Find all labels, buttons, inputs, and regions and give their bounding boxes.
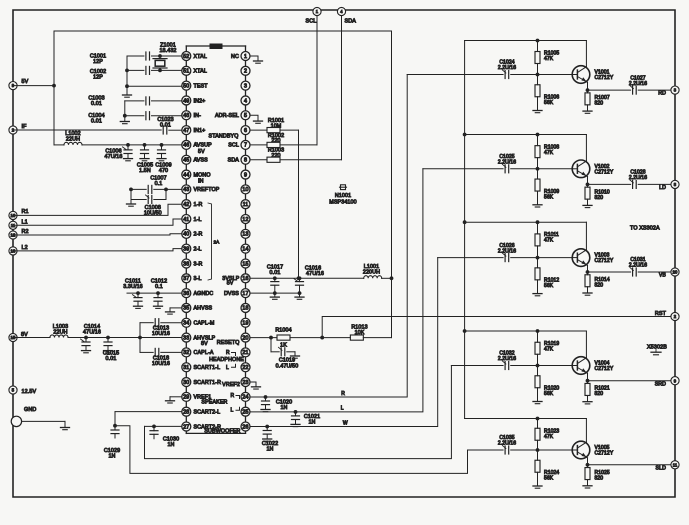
svg-text:12P: 12P xyxy=(93,59,103,65)
svg-text:8V: 8V xyxy=(201,341,208,347)
svg-text:2A: 2A xyxy=(214,240,221,245)
svg-text:10K: 10K xyxy=(355,330,365,336)
svg-text:3: 3 xyxy=(244,83,247,89)
svg-text:NC: NC xyxy=(231,54,239,60)
svg-text:38: 38 xyxy=(183,261,189,267)
svg-text:2.2U/16: 2.2U/16 xyxy=(498,65,516,71)
svg-text:820: 820 xyxy=(595,283,604,289)
svg-text:LD: LD xyxy=(659,185,666,191)
svg-text:820: 820 xyxy=(595,101,604,107)
svg-text:0.01: 0.01 xyxy=(106,356,117,362)
svg-text:1-R: 1-R xyxy=(194,202,203,208)
svg-text:2.2U/16: 2.2U/16 xyxy=(629,175,647,181)
svg-text:2.2U/16: 2.2U/16 xyxy=(498,441,516,447)
svg-text:26: 26 xyxy=(242,424,248,430)
svg-text:SRD: SRD xyxy=(655,381,666,387)
svg-text:24: 24 xyxy=(242,395,248,401)
svg-text:2.2U/16: 2.2U/16 xyxy=(629,81,647,87)
svg-text:VREF2: VREF2 xyxy=(222,382,240,388)
svg-text:R1: R1 xyxy=(22,209,29,215)
svg-text:RD: RD xyxy=(658,91,666,97)
svg-text:IN: IN xyxy=(198,179,204,185)
svg-text:47K: 47K xyxy=(544,238,554,244)
svg-text:5V: 5V xyxy=(22,79,29,85)
svg-text:56K: 56K xyxy=(544,476,554,482)
svg-text:48: 48 xyxy=(183,113,189,119)
svg-text:2-L: 2-L xyxy=(194,246,202,252)
svg-text:C2712Y: C2712Y xyxy=(595,451,614,457)
svg-text:C2712Y: C2712Y xyxy=(595,169,614,175)
svg-text:41: 41 xyxy=(183,217,189,223)
svg-text:RESETQ: RESETQ xyxy=(217,340,240,346)
svg-text:820: 820 xyxy=(595,475,604,481)
svg-text:33: 33 xyxy=(183,335,189,341)
svg-text:TO XS302A: TO XS302A xyxy=(630,225,660,231)
svg-text:34: 34 xyxy=(183,321,189,327)
svg-text:C2712Y: C2712Y xyxy=(595,258,614,264)
svg-text:C2712Y: C2712Y xyxy=(595,366,614,372)
svg-text:470: 470 xyxy=(159,168,168,174)
svg-text:47K: 47K xyxy=(544,56,554,62)
svg-text:IN-: IN- xyxy=(194,113,202,119)
svg-text:46: 46 xyxy=(183,143,189,149)
svg-text:22UH: 22UH xyxy=(66,137,80,143)
svg-text:13: 13 xyxy=(242,232,248,238)
svg-text:11: 11 xyxy=(673,462,678,467)
svg-text:5V: 5V xyxy=(198,149,205,155)
svg-text:2.2U/16: 2.2U/16 xyxy=(498,160,516,166)
svg-text:10: 10 xyxy=(242,187,248,193)
svg-text:ADR-SEL: ADR-SEL xyxy=(215,113,239,119)
svg-text:47U/16: 47U/16 xyxy=(83,330,101,336)
svg-text:SCL: SCL xyxy=(228,143,239,149)
svg-text:CAPL-A: CAPL-A xyxy=(194,350,214,356)
svg-text:5: 5 xyxy=(244,113,247,119)
svg-text:0.01: 0.01 xyxy=(270,270,281,276)
svg-text:XTAL: XTAL xyxy=(194,69,207,75)
svg-text:15: 15 xyxy=(242,261,248,267)
svg-text:2: 2 xyxy=(244,69,247,75)
svg-text:11: 11 xyxy=(243,202,249,208)
svg-text:HEADPHONE: HEADPHONE xyxy=(209,357,244,363)
svg-text:XTAL: XTAL xyxy=(194,54,207,60)
svg-text:7: 7 xyxy=(244,143,247,149)
svg-text:L2: L2 xyxy=(22,245,28,251)
svg-text:220: 220 xyxy=(271,138,280,144)
svg-text:17: 17 xyxy=(242,291,248,297)
svg-text:0.01: 0.01 xyxy=(91,101,102,107)
svg-text:R1004: R1004 xyxy=(275,328,291,334)
svg-text:CAPL-M: CAPL-M xyxy=(194,321,215,327)
svg-text:44: 44 xyxy=(183,172,189,178)
svg-text:32: 32 xyxy=(183,350,189,356)
svg-text:36: 36 xyxy=(183,291,189,297)
svg-text:220: 220 xyxy=(271,153,280,159)
svg-text:1-L: 1-L xyxy=(194,217,202,223)
svg-text:VB: VB xyxy=(659,273,667,279)
svg-text:19: 19 xyxy=(242,321,248,327)
svg-text:35: 35 xyxy=(183,306,189,312)
svg-text:820: 820 xyxy=(595,391,604,397)
svg-text:22UH: 22UH xyxy=(53,330,67,336)
svg-text:AVSUP: AVSUP xyxy=(194,143,213,149)
svg-text:18: 18 xyxy=(242,306,248,312)
svg-text:L: L xyxy=(226,365,229,371)
svg-text:0.1: 0.1 xyxy=(155,181,163,187)
svg-text:37: 37 xyxy=(183,276,189,282)
svg-text:RST: RST xyxy=(655,311,667,317)
svg-text:16: 16 xyxy=(242,276,248,282)
svg-text:8V: 8V xyxy=(21,332,28,338)
svg-text:8: 8 xyxy=(244,158,247,164)
svg-text:1N: 1N xyxy=(108,454,115,460)
svg-text:3.3U/16: 3.3U/16 xyxy=(123,284,143,290)
svg-text:R: R xyxy=(226,350,230,356)
svg-text:0.01: 0.01 xyxy=(160,122,171,128)
svg-text:SCART1-L: SCART1-L xyxy=(194,365,221,371)
svg-text:N1001: N1001 xyxy=(335,193,351,199)
svg-text:23: 23 xyxy=(242,380,248,386)
svg-text:L: L xyxy=(341,406,344,412)
svg-text:SLD: SLD xyxy=(656,465,667,471)
svg-text:AHVSS: AHVSS xyxy=(194,306,213,312)
svg-text:50: 50 xyxy=(183,83,189,89)
svg-text:1N: 1N xyxy=(266,447,273,453)
svg-text:40: 40 xyxy=(183,232,189,238)
svg-text:49: 49 xyxy=(183,98,189,104)
svg-text:5V: 5V xyxy=(227,281,234,287)
svg-text:47K: 47K xyxy=(544,347,554,353)
svg-text:0.1: 0.1 xyxy=(155,284,163,290)
svg-text:56K: 56K xyxy=(544,391,554,397)
svg-text:C2712Y: C2712Y xyxy=(595,75,614,81)
svg-text:47: 47 xyxy=(183,128,189,134)
svg-text:820: 820 xyxy=(595,195,604,201)
svg-text:MSP34100: MSP34100 xyxy=(329,200,356,206)
svg-text:18.432: 18.432 xyxy=(159,48,176,54)
svg-text:42: 42 xyxy=(183,202,189,208)
svg-text:SUBWOOFER: SUBWOOFER xyxy=(204,429,240,435)
svg-text:GND: GND xyxy=(24,407,36,413)
svg-text:12: 12 xyxy=(242,217,248,223)
svg-text:56K: 56K xyxy=(544,100,554,106)
svg-text:1.5N: 1.5N xyxy=(139,168,151,174)
svg-text:51: 51 xyxy=(183,69,189,75)
svg-text:VREFTOP: VREFTOP xyxy=(194,187,220,193)
svg-text:0.47U/50: 0.47U/50 xyxy=(276,363,299,369)
svg-text:6: 6 xyxy=(244,128,247,134)
svg-text:MONO: MONO xyxy=(194,172,211,178)
svg-text:1N: 1N xyxy=(280,405,287,411)
svg-text:AVSS: AVSS xyxy=(194,158,209,164)
svg-text:29: 29 xyxy=(183,395,189,401)
svg-text:IN1+: IN1+ xyxy=(194,128,206,134)
svg-text:STANDBYQ: STANDBYQ xyxy=(209,133,239,139)
svg-text:47K: 47K xyxy=(544,434,554,440)
svg-text:30: 30 xyxy=(183,380,189,386)
svg-text:R: R xyxy=(231,393,235,399)
svg-text:IF: IF xyxy=(22,124,28,130)
svg-text:25: 25 xyxy=(242,409,248,415)
svg-text:W: W xyxy=(343,420,348,426)
svg-text:9: 9 xyxy=(244,172,247,178)
svg-text:TEST: TEST xyxy=(194,83,209,89)
svg-text:56K: 56K xyxy=(544,283,554,289)
svg-text:3-L: 3-L xyxy=(194,276,202,282)
svg-text:2.2U/16: 2.2U/16 xyxy=(629,263,647,269)
svg-text:L: L xyxy=(231,407,234,413)
svg-text:0.01: 0.01 xyxy=(91,119,102,125)
svg-text:20: 20 xyxy=(673,270,678,275)
svg-text:47K: 47K xyxy=(544,150,554,156)
svg-text:10M: 10M xyxy=(271,123,282,129)
svg-text:220UH: 220UH xyxy=(363,269,380,275)
svg-text:1N: 1N xyxy=(167,442,174,448)
svg-text:2-R: 2-R xyxy=(194,232,203,238)
svg-text:X5302B: X5302B xyxy=(647,345,667,351)
svg-text:SPEAKER: SPEAKER xyxy=(201,399,227,405)
svg-text:43: 43 xyxy=(183,187,189,193)
svg-text:56K: 56K xyxy=(544,194,554,200)
svg-text:22: 22 xyxy=(242,365,248,371)
svg-text:R2: R2 xyxy=(22,229,29,235)
svg-text:21: 21 xyxy=(242,350,248,356)
svg-text:47U/16: 47U/16 xyxy=(306,271,324,277)
svg-text:45: 45 xyxy=(183,158,189,164)
svg-text:39: 39 xyxy=(183,246,189,252)
svg-text:IN2+: IN2+ xyxy=(194,98,206,104)
svg-text:1N: 1N xyxy=(308,419,315,425)
svg-text:20: 20 xyxy=(242,335,248,341)
svg-text:DVSS: DVSS xyxy=(224,291,239,297)
svg-text:3-R: 3-R xyxy=(194,261,203,267)
svg-text:AGNDC: AGNDC xyxy=(194,291,214,297)
svg-text:2.2U/16: 2.2U/16 xyxy=(498,248,516,254)
svg-text:L1: L1 xyxy=(22,220,28,226)
svg-text:10U/16: 10U/16 xyxy=(152,361,170,367)
svg-text:12.5V: 12.5V xyxy=(22,389,37,395)
svg-text:4: 4 xyxy=(244,98,247,104)
svg-text:12P: 12P xyxy=(93,75,103,81)
svg-text:31: 31 xyxy=(183,365,189,371)
svg-text:SDA: SDA xyxy=(228,158,240,164)
svg-text:14: 14 xyxy=(242,246,248,252)
svg-text:47U/16: 47U/16 xyxy=(105,154,123,160)
svg-text:1: 1 xyxy=(244,54,247,60)
svg-text:52: 52 xyxy=(183,54,189,60)
svg-text:10U/16: 10U/16 xyxy=(152,331,170,337)
svg-text:2.2U/16: 2.2U/16 xyxy=(498,356,516,362)
svg-text:SCART1-R: SCART1-R xyxy=(194,380,222,386)
svg-text:SCL: SCL xyxy=(306,18,317,24)
svg-text:27: 27 xyxy=(183,424,189,430)
svg-text:28: 28 xyxy=(183,409,189,415)
svg-text:R: R xyxy=(341,391,345,397)
svg-text:SDA: SDA xyxy=(345,18,357,24)
svg-text:SCART2-L: SCART2-L xyxy=(194,409,221,415)
